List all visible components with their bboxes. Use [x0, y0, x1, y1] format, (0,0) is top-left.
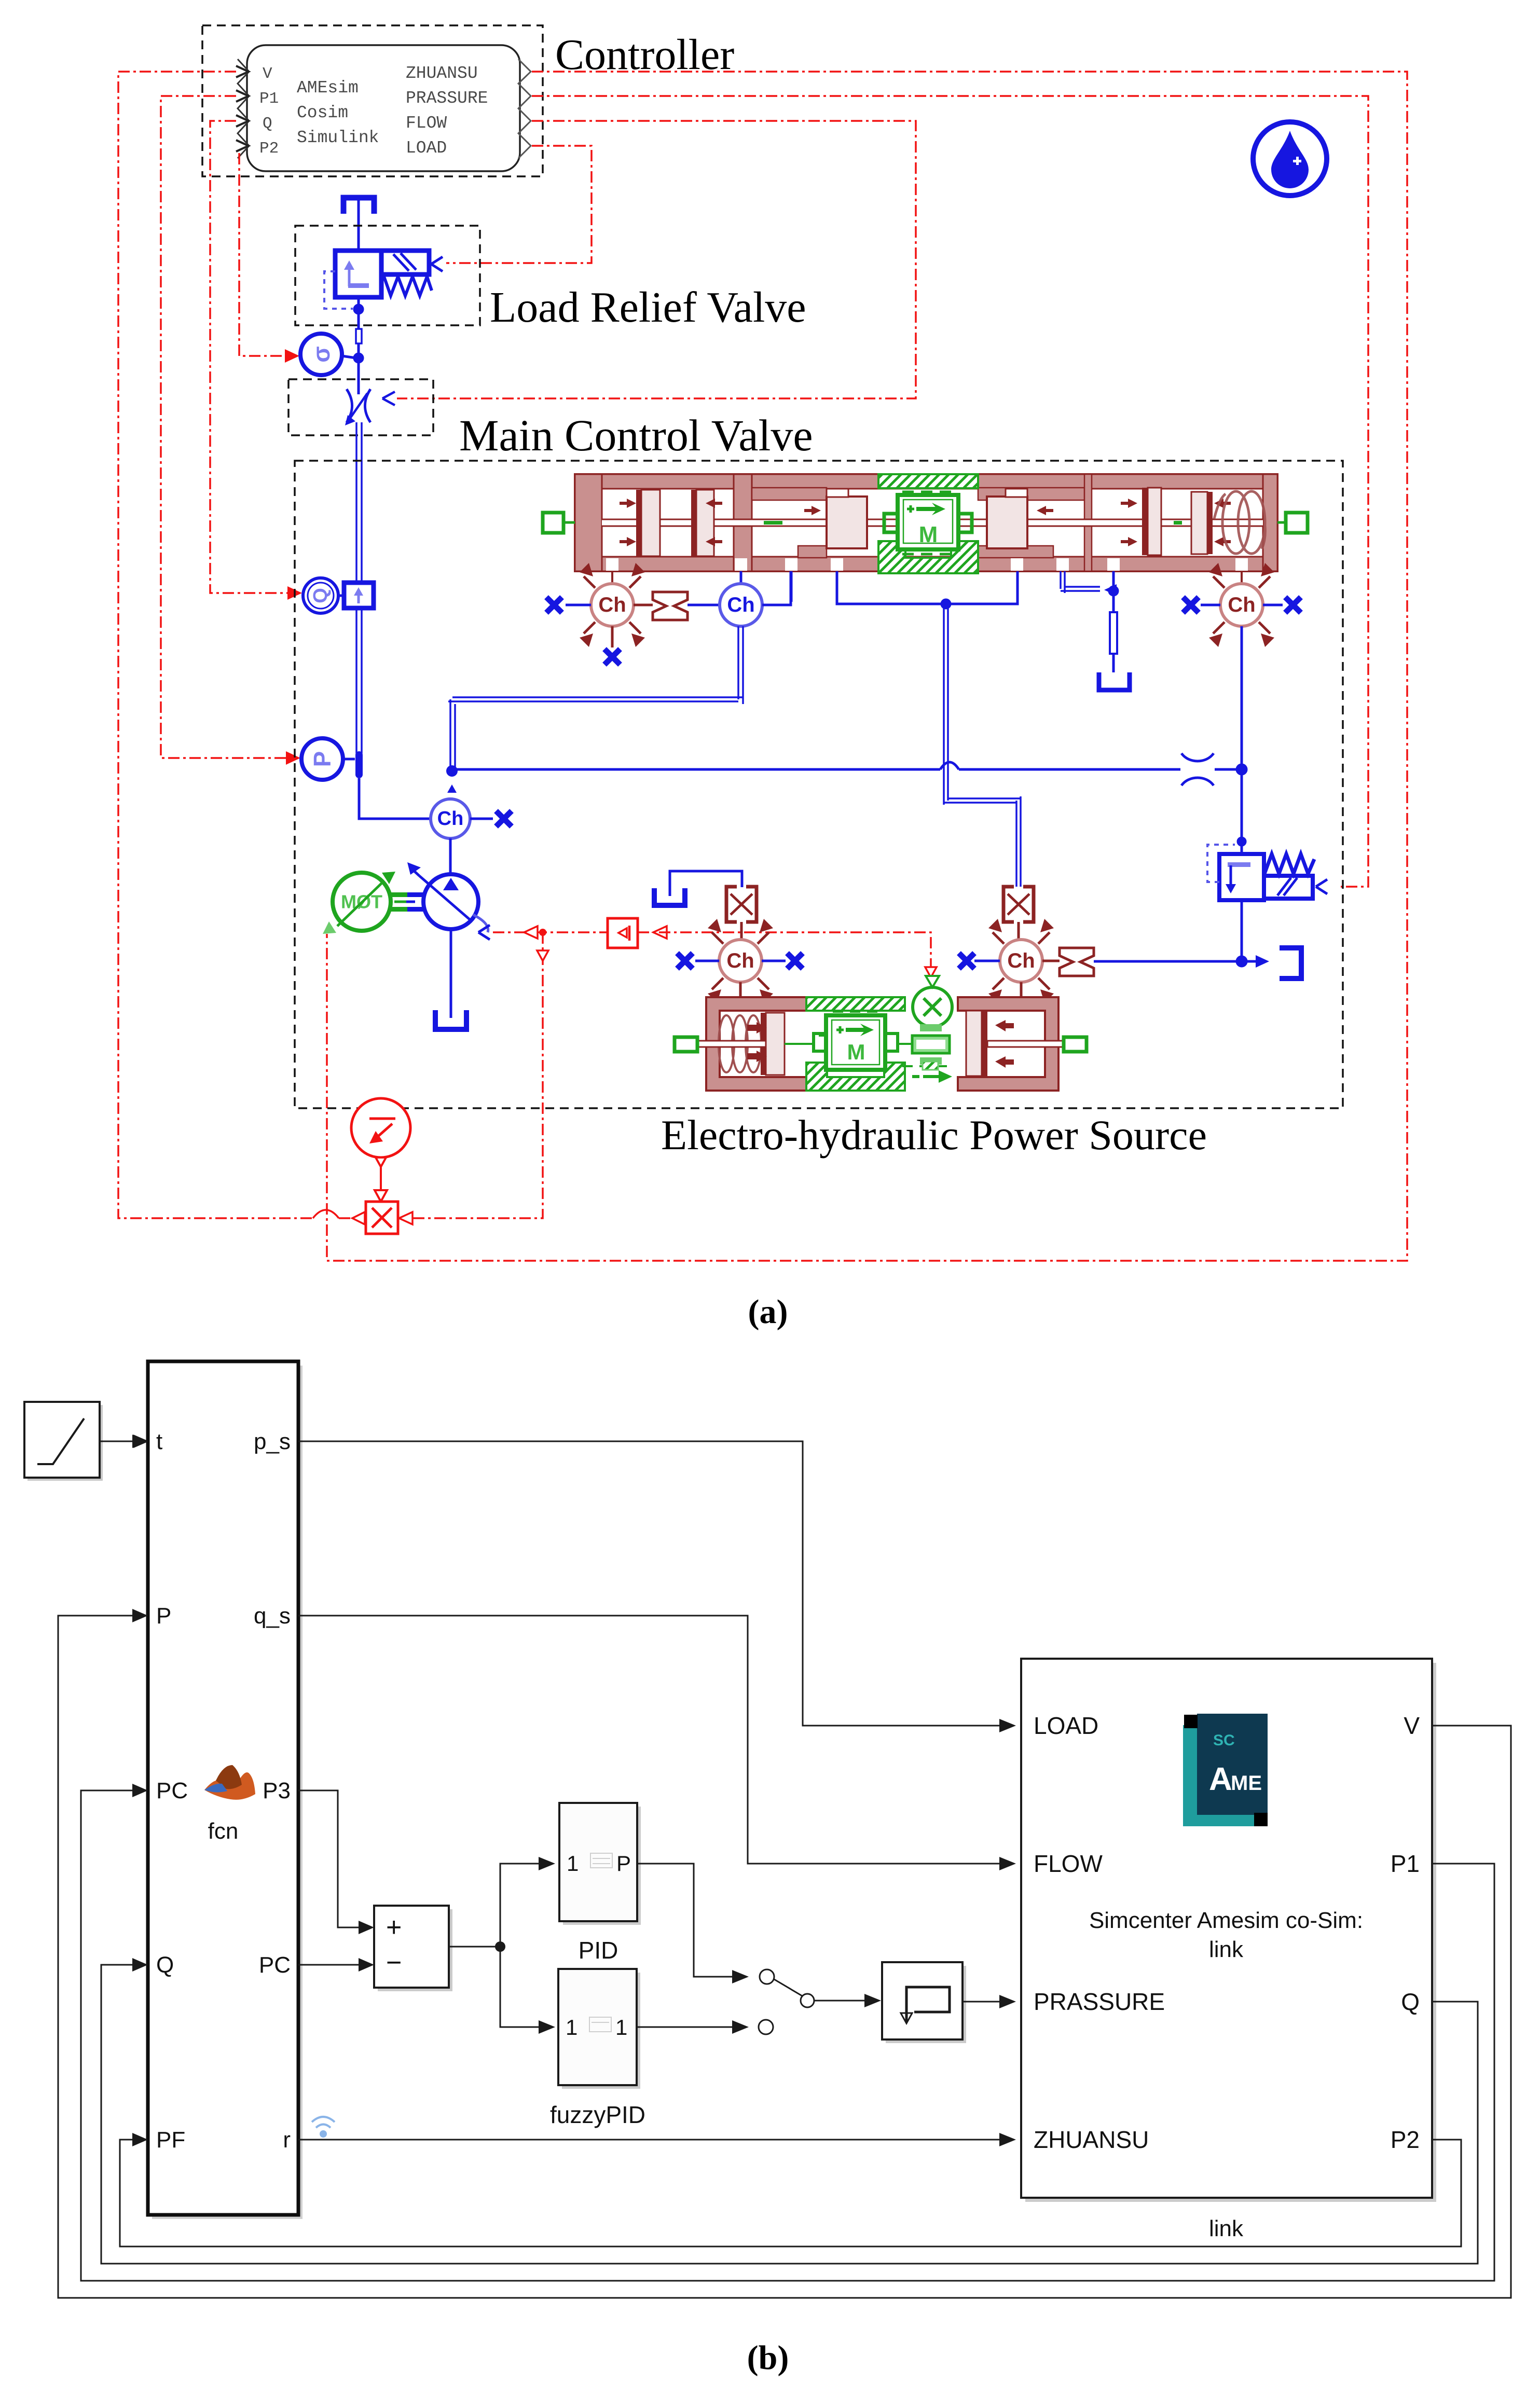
port stub Ch1	[611, 571, 613, 584]
label Load Relief Valve	[490, 283, 806, 332]
svg-text:P1: P1	[1391, 1850, 1420, 1877]
svg-text:r: r	[283, 2127, 291, 2153]
throttle valve (flow control)	[345, 389, 395, 425]
svg-text:LOAD: LOAD	[406, 139, 447, 158]
red branch to multiplier	[399, 929, 548, 1224]
svg-text:−: −	[386, 1948, 402, 1978]
input arrow PC	[132, 1784, 148, 1797]
servo valve right power source	[1003, 887, 1034, 940]
throttle on pressure line	[1181, 753, 1214, 785]
fuzzyPID subsystem block	[558, 1969, 640, 2089]
svg-text:PC: PC	[259, 1952, 291, 1978]
port label PC (output)	[259, 1952, 291, 1978]
svg-text:V: V	[1404, 1712, 1420, 1739]
svg-text:1: 1	[566, 2015, 577, 2039]
red wire FLOW to throttle	[397, 121, 916, 398]
port label q_s	[254, 1603, 291, 1629]
power source M motor block	[814, 1012, 953, 1070]
block text Simcenter Amesim co-Sim	[1089, 1908, 1363, 1962]
wire P2 feedback to PF	[120, 2140, 1461, 2247]
text AMEsim Cosim Simulink	[297, 78, 379, 147]
wire p_s to LOAD	[298, 1441, 1016, 1732]
main spool valve body	[575, 474, 1277, 571]
junction dot pump riser	[446, 765, 458, 793]
red wire Q to Q sensor	[210, 121, 302, 600]
plugged X right of power Ch	[762, 953, 803, 969]
port label PC (input)	[156, 1778, 188, 1803]
piston rod power source	[697, 1041, 1064, 1047]
green stub right power source	[1064, 1037, 1087, 1052]
wire PID to switch top contact	[637, 1864, 774, 1984]
port label PF	[156, 2127, 185, 2153]
wire junction to fuzzyPID	[500, 1947, 555, 2034]
water drop logo	[1253, 122, 1327, 196]
pipe power Ch right to cylinder	[1020, 982, 1023, 997]
junction at P sensor	[355, 751, 363, 778]
port label PRASSURE	[1034, 1988, 1165, 2015]
signal box on main line	[344, 583, 374, 608]
green hatched stator power top	[806, 997, 905, 1011]
svg-text:Ch: Ch	[437, 808, 464, 830]
pipe Ch3 down to junction	[1236, 626, 1247, 854]
label Controller	[555, 31, 734, 79]
chamber Ch power left	[708, 919, 773, 1003]
wire r to ZHUANSU	[298, 2133, 1016, 2146]
label Main Control Valve	[459, 410, 813, 460]
pipe chamber to pump	[449, 838, 452, 875]
controller subsystem block	[148, 1361, 302, 2219]
svg-text:Ch: Ch	[726, 949, 754, 972]
svg-text:fuzzyPID: fuzzyPID	[550, 2101, 645, 2128]
spring in valve right end	[1214, 491, 1265, 554]
port label Q	[156, 1952, 174, 1978]
svg-text:PC: PC	[156, 1778, 188, 1803]
wire P3 to sum plus	[298, 1790, 374, 1934]
svg-text:FLOW: FLOW	[1034, 1850, 1103, 1877]
port label FLOW	[1034, 1850, 1103, 1877]
variable displacement pump	[407, 862, 490, 940]
pipe power Ch left to cylinder	[739, 982, 742, 997]
chamber Ch1 brown	[580, 563, 645, 647]
fcn label	[208, 1818, 239, 1844]
svg-text:P1: P1	[259, 90, 279, 108]
svg-text:PRASSURE: PRASSURE	[1034, 1988, 1165, 2015]
spool pistons	[636, 488, 1213, 556]
main pressure line to right	[452, 762, 1243, 769]
pipe center tap down to power source valve	[944, 604, 1021, 887]
port label P3	[263, 1778, 291, 1803]
figure label (a)	[748, 1293, 788, 1331]
tank above relief valve	[343, 198, 374, 251]
wire PC to sum minus	[298, 1958, 374, 1972]
input arrow P	[132, 1609, 148, 1622]
svg-text:Load Relief Valve: Load Relief Valve	[490, 283, 806, 332]
P pressure sensor	[301, 738, 355, 780]
svg-text:Ch: Ch	[727, 594, 754, 616]
port label t	[156, 1429, 162, 1454]
pipe relief valve to sigma junction	[353, 297, 364, 394]
wire Q feedback to Q	[101, 1965, 1478, 2264]
force sensor X green	[913, 976, 952, 1027]
svg-text:P3: P3	[263, 1778, 291, 1803]
fuzzyPID label	[550, 2101, 645, 2128]
Q flow sensor	[303, 578, 344, 613]
Simcenter Amesim co-Sim block	[1021, 1659, 1436, 2202]
wire q_s to FLOW	[298, 1616, 1016, 1870]
port label LOAD	[1034, 1712, 1098, 1739]
coupling between motor and cylinder	[912, 1024, 952, 1083]
svg-text:P: P	[309, 751, 336, 767]
valve motor M block	[884, 495, 972, 549]
port stub Ch3	[1241, 571, 1243, 584]
plugged X left of power Ch right	[959, 953, 1000, 969]
green hatched stator power bottom	[806, 1063, 905, 1091]
svg-text:1: 1	[567, 1851, 579, 1876]
input arrow t	[132, 1435, 148, 1448]
svg-text:P: P	[616, 1851, 631, 1876]
svg-text:ME: ME	[1231, 1772, 1262, 1795]
PID subsystem block	[559, 1803, 641, 1925]
input arrow Q	[132, 1958, 148, 1972]
spool rod	[602, 519, 1263, 526]
port label r	[283, 2127, 291, 2153]
svg-text:ZHUANSU: ZHUANSU	[1034, 2126, 1149, 2153]
svg-text:q_s: q_s	[254, 1603, 291, 1629]
ports under valve center	[791, 571, 1017, 609]
svg-text:Simcenter Amesim co-Sim:: Simcenter Amesim co-Sim:	[1089, 1908, 1363, 1933]
port labels ZHUANSU PRASSURE FLOW LOAD	[406, 64, 488, 158]
chamber Ch3 brown	[1209, 563, 1274, 647]
wifi icon on r wire	[312, 2117, 335, 2137]
wire ramp to t	[100, 1435, 149, 1448]
svg-text:+: +	[386, 1912, 402, 1942]
svg-text:P2: P2	[1391, 2126, 1420, 2153]
svg-text:fcn: fcn	[208, 1818, 239, 1844]
constant K source circle	[351, 1098, 410, 1202]
controller block AMEsim interface	[202, 25, 543, 176]
tank left of power source	[654, 871, 742, 905]
svg-text:Simulink: Simulink	[297, 128, 379, 147]
sigma speed sensor	[300, 334, 356, 375]
figure label (b)	[747, 2339, 789, 2377]
hourglass fitting right of power Ch	[1042, 948, 1094, 976]
green rod stub right	[1277, 513, 1308, 533]
port label V	[1404, 1712, 1420, 1739]
green hatched stator top	[878, 474, 978, 492]
green rod stub left	[543, 513, 575, 533]
plugged port X right of pump chamber	[496, 811, 512, 826]
svg-text:(a): (a)	[748, 1293, 788, 1331]
pipe throttle down to Q transducer	[356, 422, 362, 583]
svg-text:Q: Q	[310, 588, 332, 603]
return line from hourglass to tank junction	[1094, 960, 1242, 963]
red wire LOAD to relief valve	[446, 146, 592, 263]
fcn MATLAB logo icon	[204, 1765, 255, 1800]
spool lands center	[827, 489, 1027, 548]
PID label	[579, 1937, 618, 1964]
servo valve left power source	[726, 887, 757, 940]
red wire V to multiplier	[118, 72, 351, 1218]
port and drain to tank under valve	[1061, 571, 1130, 690]
svg-text:link: link	[1209, 1937, 1244, 1962]
red wire PRASSURE to unloading valve	[532, 96, 1368, 887]
chamber Ch2 blue	[720, 584, 762, 626]
svg-text:ZHUANSU: ZHUANSU	[406, 64, 478, 83]
dashed box load relief valve	[295, 226, 480, 325]
plugged port X below Ch1	[604, 626, 620, 665]
plugged port X left of Ch1	[546, 597, 591, 613]
svg-text:t: t	[156, 1429, 162, 1454]
chamber Ch power right	[988, 919, 1054, 1003]
svg-text:Q: Q	[156, 1952, 174, 1978]
red wire P2 to sigma sensor	[239, 153, 299, 363]
port label p_s	[254, 1429, 291, 1454]
pump chamber Ch	[431, 799, 493, 838]
ramp source block	[24, 1402, 103, 1481]
plugged X left of power Ch	[677, 953, 719, 969]
pipe Ch2 down and left to pump riser	[448, 626, 743, 769]
svg-text:A: A	[1209, 1761, 1232, 1797]
port via right of Ch2	[762, 571, 791, 605]
red control line pump swash	[493, 926, 937, 977]
hourglass fitting between Ch1 and Ch2	[634, 592, 720, 620]
port label P1	[1391, 1850, 1420, 1877]
svg-text:Electro-hydraulic Power Source: Electro-hydraulic Power Source	[661, 1111, 1207, 1159]
svg-text:M: M	[919, 522, 938, 547]
svg-text:link: link	[1209, 2216, 1244, 2241]
svg-text:M: M	[847, 1040, 865, 1064]
load cylinder left body	[706, 997, 806, 1091]
wire junction to PID	[500, 1857, 555, 1947]
gain K box	[608, 918, 638, 948]
pipe unloading valve to tank	[1236, 900, 1301, 979]
wire switch to memory	[814, 1994, 881, 2007]
svg-text:SC: SC	[1213, 1732, 1235, 1749]
wire V feedback to P	[58, 1616, 1511, 2298]
motor pump shaft	[391, 892, 423, 912]
svg-text:Cosim: Cosim	[297, 103, 348, 122]
svg-text:Main Control Valve: Main Control Valve	[459, 410, 813, 460]
plugged port X right of Ch3	[1263, 597, 1301, 613]
wire fuzzyPID to switch bottom contact	[637, 2020, 773, 2034]
wire memory to PRASSURE	[962, 1995, 1016, 2008]
load cylinder right body	[958, 997, 1058, 1091]
port label P2	[1391, 2126, 1420, 2153]
manual switch lever and pole	[774, 1979, 814, 2007]
port label Q out	[1401, 1988, 1420, 2015]
pipe pump to tank	[435, 929, 466, 1029]
port labels V P1 Q P2	[259, 65, 279, 158]
dashed box main control valve	[288, 379, 433, 435]
pipe to pump chamber	[359, 778, 430, 819]
flow arrows in valve	[620, 499, 1231, 546]
big dashed box electro-hydraulic power source	[295, 461, 1343, 1108]
port stub Ch2	[740, 571, 742, 584]
svg-text:Q: Q	[263, 115, 272, 133]
port label P	[156, 1603, 171, 1629]
green hatched stator bottom	[878, 541, 978, 573]
red wire P1 to P sensor	[161, 96, 300, 765]
input arrow PF	[132, 2133, 148, 2146]
svg-text:σ: σ	[308, 346, 335, 362]
svg-text:AMEsim: AMEsim	[297, 78, 359, 98]
svg-text:p_s: p_s	[254, 1429, 291, 1454]
wire sum output with junction	[449, 1941, 505, 1952]
svg-text:V: V	[263, 65, 272, 83]
AME logo	[1183, 1714, 1268, 1826]
svg-text:PF: PF	[156, 2127, 185, 2153]
svg-text:P2: P2	[259, 140, 279, 158]
wire P1 feedback to PC	[81, 1790, 1494, 2281]
svg-text:Ch: Ch	[1007, 949, 1035, 972]
svg-text:PRASSURE: PRASSURE	[406, 89, 488, 108]
pipe down to P junction	[356, 608, 362, 753]
svg-text:FLOW: FLOW	[406, 114, 447, 133]
svg-text:P: P	[156, 1603, 171, 1629]
unloading relief valve right	[1207, 845, 1327, 900]
electric motor MOT	[323, 872, 395, 934]
memory block	[882, 1962, 966, 2043]
plugged port X left of Ch3	[1183, 597, 1220, 613]
green stub left power source	[675, 1037, 697, 1052]
svg-text:1: 1	[615, 2015, 627, 2039]
red wire ZHUANSU to motor	[327, 72, 1407, 1261]
label Electro-hydraulic Power Source	[661, 1111, 1207, 1159]
svg-text:(b): (b)	[747, 2339, 789, 2377]
svg-text:Ch: Ch	[1228, 594, 1255, 616]
load relief valve	[324, 251, 443, 309]
sum block	[374, 1906, 452, 1991]
port label ZHUANSU	[1034, 2126, 1149, 2153]
svg-text:PID: PID	[579, 1937, 618, 1964]
svg-text:Ch: Ch	[598, 594, 626, 616]
block label link	[1209, 2216, 1244, 2241]
svg-text:LOAD: LOAD	[1034, 1712, 1098, 1739]
multiplier X box	[352, 1202, 398, 1234]
svg-text:Q: Q	[1401, 1988, 1420, 2015]
